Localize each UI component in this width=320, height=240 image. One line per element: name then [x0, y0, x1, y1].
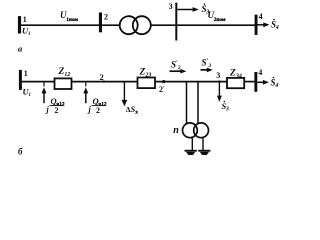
arrow dS loss [123, 82, 125, 105]
wire drop right to transformer [197, 82, 199, 124]
arrow jQb12/2 right [85, 82, 87, 86]
node 2' junction dot [162, 80, 165, 83]
wire bus1 to Z12 [22, 81, 55, 83]
wire Z12 to Z23 [72, 81, 138, 83]
arrow S3 top [178, 9, 194, 11]
svg-text:n: n [173, 125, 179, 136]
ground right [198, 150, 210, 152]
svg-text:2: 2 [100, 72, 104, 82]
bus 4 [255, 15, 258, 35]
transformer n (shunt branch) [183, 123, 198, 138]
bus 1 [18, 16, 21, 33]
svg-text:2: 2 [55, 106, 59, 115]
svg-text:2: 2 [104, 13, 108, 22]
wire stub left to ground [191, 137, 193, 150]
ground left [185, 150, 197, 152]
wire stub right to ground [202, 138, 204, 151]
node 3 junction dot [218, 80, 220, 82]
bus 3 [175, 3, 177, 41]
svg-text:2: 2 [96, 106, 100, 115]
bus 2 [99, 13, 102, 33]
wire Z23 to Z34 [155, 81, 227, 83]
arrow jQb12/2 left [43, 82, 45, 86]
resistor box Z23 [138, 78, 156, 89]
wire drop left to transformer [186, 82, 188, 124]
wire bus1 to transformer [21, 24, 120, 26]
bus 4 (b) [254, 72, 257, 92]
arrow S4 (b) [257, 81, 263, 83]
svg-text:3: 3 [216, 71, 220, 80]
arrow S'3 [201, 69, 209, 71]
svg-text:4: 4 [258, 68, 262, 77]
node 2 junction dot [103, 80, 105, 82]
wire transformer to bus4 [151, 24, 256, 26]
resistor box Z34 [227, 78, 244, 88]
wire Z34 to bus4 [244, 81, 254, 83]
svg-text:4: 4 [259, 12, 263, 21]
svg-text:б: б [18, 147, 23, 157]
svg-text:1: 1 [24, 69, 28, 78]
svg-text:3: 3 [169, 2, 173, 11]
transformer T [120, 16, 138, 34]
arrow S4 top [258, 24, 265, 26]
resistor box Z12 [55, 78, 72, 89]
svg-text:1: 1 [23, 15, 27, 24]
arrow S3 load [218, 82, 220, 100]
bus 1 (b) [19, 70, 22, 90]
arrow S'2 [170, 70, 182, 72]
